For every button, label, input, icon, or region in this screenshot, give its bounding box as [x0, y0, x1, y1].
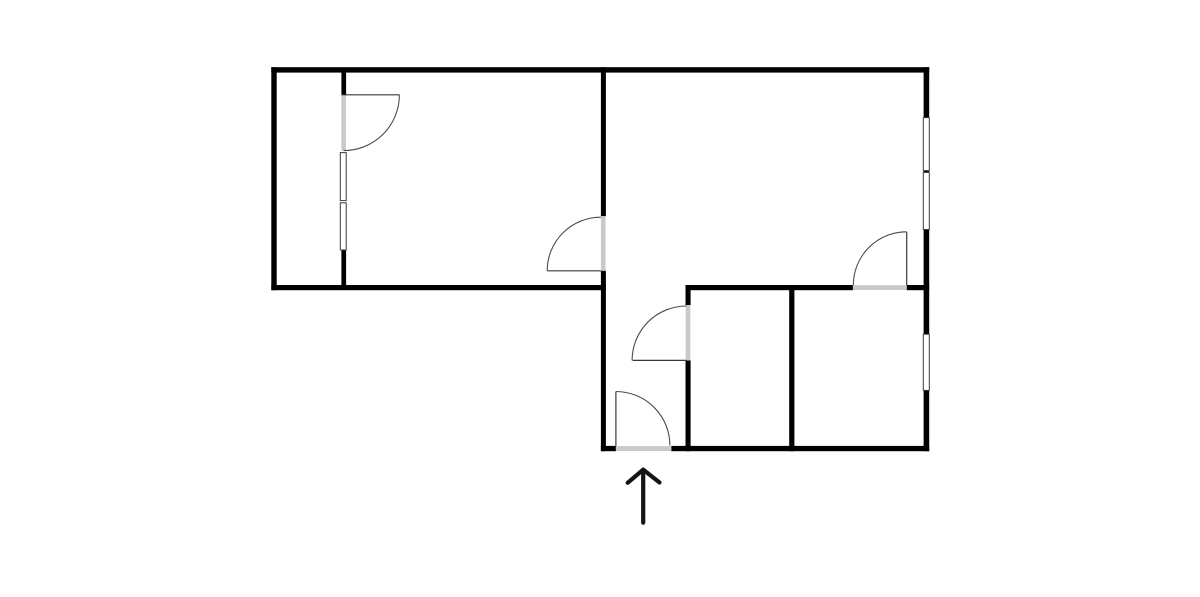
window W1 upper sash (balcony wall) — [340, 153, 346, 201]
door D1 leaf — [341, 94, 399, 96]
door D2 leaf — [547, 270, 601, 272]
wall: small rooms top, right of door — [907, 285, 930, 290]
wall: small room 1 left, lower segment — [686, 360, 691, 451]
wall: right exterior — [924, 67, 930, 451]
door D5 opening (entrance) — [616, 446, 671, 451]
door D5 leaf — [615, 392, 617, 446]
door D4 swing arc — [632, 306, 686, 360]
window W3 (right wall, small room 2) — [923, 334, 929, 390]
wall: bottom of top-left room — [271, 285, 606, 290]
door D5 swing arc — [616, 392, 670, 446]
wall: divider between small rooms — [789, 285, 794, 451]
door D3 opening (top-right room to small room 2) — [853, 285, 907, 290]
wall: top exterior — [271, 67, 929, 72]
window W1 lower sash (balcony wall) — [340, 203, 346, 250]
entrance arrow head — [628, 470, 660, 483]
wall: central vertical lower segment — [601, 271, 606, 452]
wall: balcony partition lower segment — [341, 250, 346, 285]
door D2 swing arc — [547, 217, 601, 271]
door D2 opening (top-left room) — [601, 216, 606, 271]
wall: small room 1 left, upper segment — [686, 285, 691, 305]
window W2 lower sash (right wall) — [923, 172, 929, 229]
wall: balcony partition upper segment — [341, 72, 346, 95]
door D3 leaf — [906, 232, 908, 285]
door D1 opening (balcony) — [341, 95, 346, 151]
entrance arrow shaft — [641, 471, 645, 523]
door D4 opening (small room 1) — [686, 305, 691, 360]
wall: central vertical upper segment — [601, 67, 606, 216]
door D1 swing arc — [344, 95, 400, 151]
wall: bottom exterior, right of entrance — [671, 446, 929, 451]
door D4 leaf — [633, 359, 687, 361]
door D3 swing arc — [853, 232, 906, 285]
wall: bottom exterior, left of entrance — [601, 446, 616, 451]
window W2 upper sash (right wall) — [923, 118, 929, 171]
wall: left exterior — [271, 67, 276, 290]
wall: small rooms top, left of door — [686, 285, 853, 290]
